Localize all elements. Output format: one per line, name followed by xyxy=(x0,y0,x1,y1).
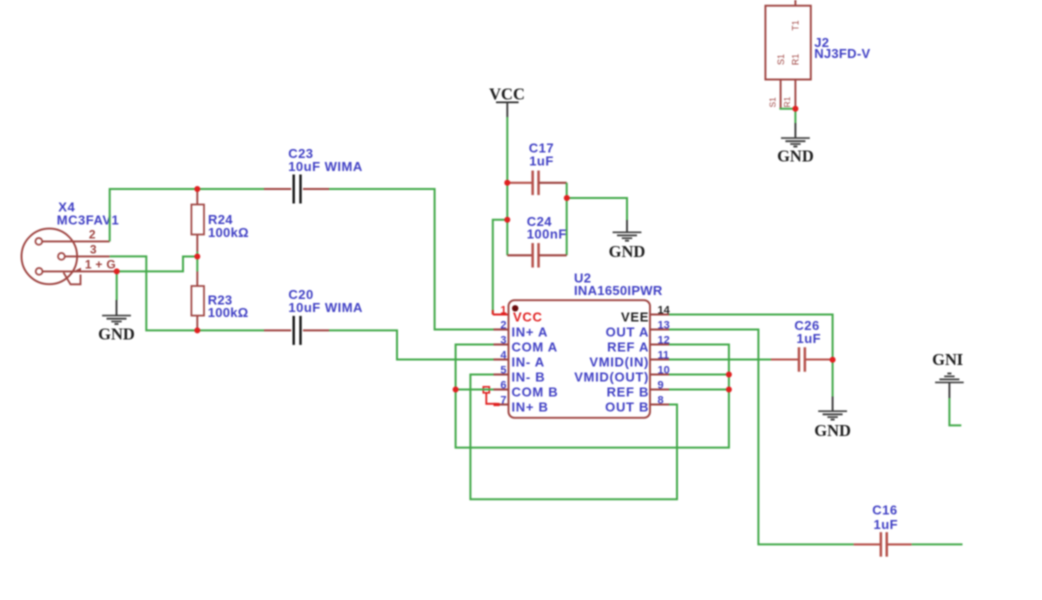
svg-text:8: 8 xyxy=(658,394,664,406)
wire pin10 VMID(OUT) xyxy=(669,374,729,376)
svg-text:7: 7 xyxy=(500,394,506,406)
svg-text:100kΩ: 100kΩ xyxy=(208,305,249,320)
svg-text:100nF: 100nF xyxy=(527,227,567,242)
svg-text:12: 12 xyxy=(658,334,670,346)
highlighted wire U2 pin1 xyxy=(493,310,509,315)
junction J2 xyxy=(792,106,798,112)
svg-text:OUT A: OUT A xyxy=(606,325,649,340)
wire C20 to U2 pin4 xyxy=(329,330,494,359)
svg-text:GND: GND xyxy=(609,242,646,261)
svg-text:IN- B: IN- B xyxy=(512,370,546,385)
wire C16 right xyxy=(912,543,963,545)
pin 10 VMID(OUT) xyxy=(574,364,670,384)
svg-text:10: 10 xyxy=(658,364,670,376)
junction C26 right xyxy=(830,357,836,363)
wire pin2 to C23 xyxy=(110,189,264,241)
svg-text:VMID(IN): VMID(IN) xyxy=(589,355,649,370)
svg-text:2: 2 xyxy=(89,228,96,242)
wire pin14 VEE xyxy=(669,315,833,360)
wire J2 pins to ground xyxy=(779,108,795,110)
svg-text:R1: R1 xyxy=(791,54,801,66)
highlight marker pins 6-7 xyxy=(483,387,499,405)
op-amp U2 INA1650IPWR body xyxy=(509,270,663,417)
wire pin3 COM A down xyxy=(456,345,729,448)
svg-text:S1: S1 xyxy=(768,97,778,108)
capacitor C20 xyxy=(264,287,363,345)
wire X4 pin1 to ground xyxy=(116,271,118,300)
resistor R23 xyxy=(191,257,248,331)
svg-text:OUT B: OUT B xyxy=(605,400,649,415)
svg-text:13: 13 xyxy=(658,319,670,331)
svg-text:VCC: VCC xyxy=(489,85,525,104)
ground at X4 xyxy=(98,300,135,344)
ground VEE xyxy=(814,397,851,440)
junction pin9 xyxy=(726,387,732,393)
svg-text:1 + G: 1 + G xyxy=(85,257,116,271)
svg-text:VEE: VEE xyxy=(621,310,649,325)
svg-text:T1: T1 xyxy=(791,20,801,31)
svg-text:11: 11 xyxy=(658,349,670,361)
svg-text:IN+ B: IN+ B xyxy=(512,400,549,415)
pin 6 COM B xyxy=(494,379,559,399)
capacitor C17 xyxy=(507,140,566,195)
pin 3 COM A xyxy=(494,334,558,354)
svg-text:1: 1 xyxy=(500,304,506,316)
connector X4 xyxy=(22,200,120,285)
pin 1 VCC xyxy=(500,304,542,324)
svg-text:2: 2 xyxy=(500,319,506,331)
wire to middle ground xyxy=(567,198,627,220)
pin 2 IN+ A xyxy=(494,319,549,339)
svg-text:GND: GND xyxy=(777,147,814,166)
pin 12 REF A xyxy=(607,334,670,354)
pin 5 IN- B xyxy=(494,364,546,384)
svg-text:R1: R1 xyxy=(782,96,792,107)
pin 13 OUT A xyxy=(606,319,670,339)
svg-text:3: 3 xyxy=(90,242,97,256)
wire VCC to U2 pin1 xyxy=(493,220,508,315)
wire C17 right vertical xyxy=(566,183,568,256)
ground at J2 xyxy=(777,123,814,166)
junction COM xyxy=(453,387,459,393)
capacitor C23 xyxy=(264,146,363,204)
svg-text:GND: GND xyxy=(98,325,135,344)
svg-text:1uF: 1uF xyxy=(529,153,554,168)
pin 8 OUT B xyxy=(605,394,669,414)
svg-text:100kΩ: 100kΩ xyxy=(208,225,249,240)
wire J2 junction down xyxy=(794,109,796,123)
wire pin5 to pin8 feedback xyxy=(470,375,677,500)
capacitor C16 xyxy=(854,503,912,557)
wire pin11 to C26 xyxy=(669,359,771,361)
pin 11 VMID(IN) xyxy=(589,349,669,369)
wire X4 pin3 down to bottom net xyxy=(110,256,264,330)
junction R23 bottom xyxy=(194,327,200,333)
pin 14 VEE xyxy=(621,304,671,324)
svg-text:6: 6 xyxy=(500,379,506,391)
junction C17 right xyxy=(564,195,570,201)
svg-text:S1: S1 xyxy=(776,54,786,65)
wire C23 to U2 pin2 xyxy=(329,189,494,330)
svg-text:REF A: REF A xyxy=(607,340,649,355)
junction C17 left xyxy=(504,180,510,186)
wire VCC rail xyxy=(506,117,508,255)
junction R24/R23 xyxy=(194,254,200,260)
ground middle xyxy=(609,220,646,261)
wire pin13 OUT A to C16 xyxy=(669,330,854,545)
svg-text:COM A: COM A xyxy=(512,340,558,355)
wire pin6 COM B xyxy=(456,389,494,391)
svg-text:COM B: COM B xyxy=(512,385,559,400)
svg-text:IN+ A: IN+ A xyxy=(512,325,549,340)
capacitor C26 xyxy=(771,318,833,372)
svg-text:C16: C16 xyxy=(872,503,897,518)
svg-text:1uF: 1uF xyxy=(874,517,899,532)
wire R24 to junction xyxy=(196,252,198,257)
svg-text:10uF WIMA: 10uF WIMA xyxy=(288,300,363,315)
capacitor C24 xyxy=(507,214,566,268)
resistor R24 xyxy=(191,189,248,252)
pin 4 IN- A xyxy=(494,349,545,369)
svg-text:VMID(OUT): VMID(OUT) xyxy=(574,370,649,385)
wire junction to X4 pin1 xyxy=(119,257,197,272)
wire VEE to ground xyxy=(832,360,834,397)
junction X4 pin1 xyxy=(114,268,120,274)
svg-text:3: 3 xyxy=(500,334,506,346)
svg-text:GND: GND xyxy=(814,421,851,440)
svg-text:9: 9 xyxy=(658,379,664,391)
svg-text:10uF WIMA: 10uF WIMA xyxy=(288,159,363,174)
power VCC xyxy=(489,85,525,118)
svg-text:1uF: 1uF xyxy=(797,331,822,346)
svg-text:14: 14 xyxy=(658,304,671,316)
svg-text:4: 4 xyxy=(500,349,507,361)
svg-text:5: 5 xyxy=(500,364,506,376)
wire pin9 REF B xyxy=(669,389,729,391)
svg-text:NJ3FD-V: NJ3FD-V xyxy=(814,46,870,61)
pin 9 REF B xyxy=(607,379,669,399)
pin 7 IN+ B xyxy=(494,394,549,414)
junction pin10 xyxy=(726,372,732,378)
ground inverted right (clipped) xyxy=(932,350,969,425)
svg-text:REF B: REF B xyxy=(607,385,650,400)
junction VCC to U2 pin1 xyxy=(504,217,510,223)
svg-text:INA1650IPWR: INA1650IPWR xyxy=(574,283,663,298)
svg-text:VCC: VCC xyxy=(513,310,543,325)
junction at R24 top xyxy=(194,186,200,192)
svg-text:IN- A: IN- A xyxy=(512,355,545,370)
connector J2 NJ3FD-V xyxy=(765,0,870,108)
